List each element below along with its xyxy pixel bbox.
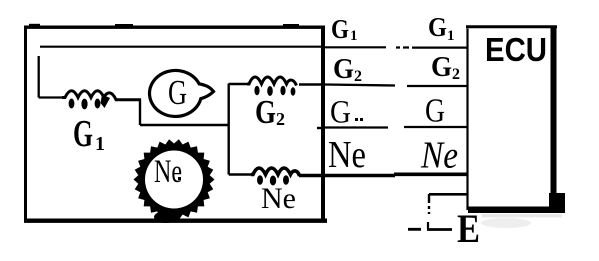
svg-text:Ne: Ne xyxy=(261,182,296,215)
svg-text:G: G xyxy=(428,12,447,42)
pickup coil G2 xyxy=(247,77,297,96)
svg-text:1: 1 xyxy=(95,133,105,155)
wire: G1 coil to common return elbow xyxy=(140,100,229,126)
pickup coil Ne xyxy=(251,168,300,186)
wire: G output stub at box edge xyxy=(317,127,325,129)
wire: Ne coil feed xyxy=(229,173,251,176)
wire G1 to ECU xyxy=(325,46,467,48)
wire: common return vertical bus xyxy=(227,84,229,175)
wire: ground branch from ECU xyxy=(429,194,468,214)
svg-text:Ne: Ne xyxy=(154,154,182,190)
label Ne (coil) xyxy=(261,182,296,215)
svg-text:G: G xyxy=(168,73,187,112)
label G1 (coil) xyxy=(73,113,105,155)
node label Ne (right) xyxy=(420,135,458,177)
label E xyxy=(457,206,480,251)
wire: G2 coil feed xyxy=(229,83,247,85)
label G2 (coil) xyxy=(255,94,285,131)
svg-text:ECU: ECU xyxy=(485,31,547,68)
svg-text:2: 2 xyxy=(452,66,460,83)
wire: G1 signal top run inside box xyxy=(40,46,323,48)
wire: G1 coil left riser xyxy=(39,56,62,98)
wire: G2 coil to box edge xyxy=(299,83,323,85)
svg-text:E: E xyxy=(457,206,480,251)
label ECU xyxy=(485,31,547,68)
Ne timing rotor (toothed wheel) xyxy=(134,139,215,223)
node label G1 (left) xyxy=(331,14,358,44)
svg-text:G: G xyxy=(333,53,354,85)
svg-text:G: G xyxy=(330,95,351,131)
node label G2 (right) xyxy=(431,51,460,83)
wire G to ECU xyxy=(325,126,467,129)
label G (rotor) xyxy=(168,73,187,112)
svg-text:G: G xyxy=(331,14,349,44)
ground symbol xyxy=(408,222,452,230)
node label Ne (left) xyxy=(328,134,366,176)
wire Ne to ECU xyxy=(299,174,468,175)
node label G (left) xyxy=(330,95,363,131)
distributor housing box xyxy=(24,24,327,223)
scan smudge under ECU xyxy=(481,214,562,228)
svg-text:G: G xyxy=(255,94,276,131)
ECU box xyxy=(466,27,565,213)
svg-text:G: G xyxy=(425,93,445,130)
svg-text:2: 2 xyxy=(354,68,362,85)
svg-text:Ne: Ne xyxy=(420,135,458,177)
node label G2 (left) xyxy=(333,53,362,85)
node label G1 (right) xyxy=(428,12,455,44)
G signal rotor (teardrop) xyxy=(149,70,213,116)
svg-text:2: 2 xyxy=(276,109,285,129)
svg-text:G: G xyxy=(73,113,93,155)
pickup coil G1 xyxy=(62,91,141,110)
label Ne (rotor) xyxy=(154,154,182,190)
svg-text:Ne: Ne xyxy=(328,134,366,176)
node label G (right) xyxy=(425,93,445,130)
svg-text:1: 1 xyxy=(447,28,455,44)
wire G2 to ECU xyxy=(325,85,467,87)
svg-text:1: 1 xyxy=(350,28,358,44)
svg-text:G: G xyxy=(431,51,452,83)
